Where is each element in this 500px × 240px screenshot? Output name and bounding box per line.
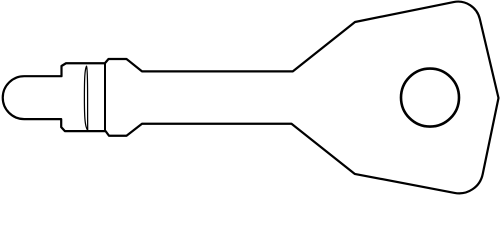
collar highlight lens xyxy=(84,66,87,130)
key outline (tip, collar, shoulder, shaft, bow) xyxy=(3,2,499,194)
collar edge line (section divider) xyxy=(104,63,106,131)
bow hole xyxy=(401,69,459,127)
